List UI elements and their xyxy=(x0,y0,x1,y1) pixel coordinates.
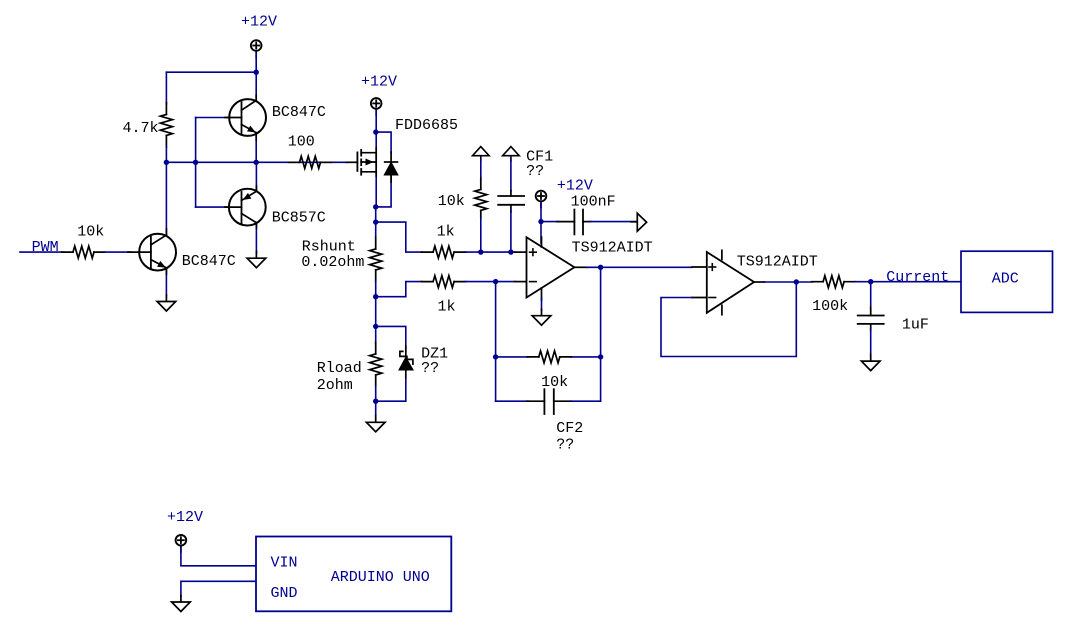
wire power to mosfet drain node xyxy=(375,111,377,132)
wire Q3 emitter down xyxy=(165,268,167,297)
svg-text:Current: Current xyxy=(886,269,949,286)
svg-text:ADC: ADC xyxy=(992,271,1019,288)
wire DZ1 bottom xyxy=(376,379,406,401)
wire Rload top xyxy=(375,326,377,343)
svg-text:PWM: PWM xyxy=(32,239,59,256)
wire 1k to opamp minus xyxy=(466,281,515,283)
capacitor CF2 xyxy=(527,389,572,414)
wire rail down to R 4.7k xyxy=(165,72,167,104)
wire 1k to opamp plus xyxy=(466,251,515,253)
wire tap to opamp minus xyxy=(376,282,422,297)
svg-text:TS912AIDT: TS912AIDT xyxy=(572,239,653,256)
wire opamp2 feedback loop xyxy=(661,282,796,357)
resistor R 1k (plus input) xyxy=(422,246,466,258)
wire feedback 10k right xyxy=(571,356,601,358)
wire 1uF bottom xyxy=(870,330,872,356)
svg-text:TS912AIDT: TS912AIDT xyxy=(737,253,818,270)
power +12V symbol P3 (opamp1) xyxy=(536,191,547,208)
resistor R 100 (gate) xyxy=(289,156,332,168)
resistor Rshunt xyxy=(370,237,382,281)
wire CF1 top xyxy=(510,160,512,192)
op-amp U2 TS912AIDT xyxy=(692,250,765,314)
svg-text:+12V: +12V xyxy=(361,74,397,91)
wire 4.7k to mid rail xyxy=(165,147,167,162)
resistor R 1k (minus input) xyxy=(422,276,466,288)
wire GND pin to ground xyxy=(181,581,256,596)
transistor M1 FDD6685 MOSFET xyxy=(347,148,377,176)
transistor Q3 BC847C (bottom) xyxy=(128,229,176,274)
flag arrow (CF1 top) xyxy=(503,147,520,161)
diode DZ1 zener xyxy=(400,346,413,378)
wire opamp2 output xyxy=(764,281,812,283)
wire opamp1 gnd xyxy=(541,298,543,311)
svg-text:BC857C: BC857C xyxy=(272,210,326,227)
wire mosfet vertical drain-source xyxy=(375,132,377,207)
wire feedback left vertical xyxy=(495,282,497,402)
wire top rail xyxy=(166,71,256,73)
ground under Q2 xyxy=(247,252,266,268)
wire Rload bottom to gnd node xyxy=(375,386,377,416)
diode D1 (body diode) xyxy=(385,152,398,182)
ground under Rload xyxy=(366,416,385,432)
svg-text:10k: 10k xyxy=(77,224,104,241)
svg-text:2ohm: 2ohm xyxy=(317,377,353,394)
junction dots (amp2 section) xyxy=(794,279,874,285)
resistor R 100k xyxy=(812,276,856,288)
wire 100k to ADC xyxy=(856,281,961,283)
wire Q3 collector to rail xyxy=(165,162,167,236)
wire Q2 base xyxy=(196,206,228,208)
resistor R 4.7k xyxy=(160,103,172,148)
power +12V symbol P1 xyxy=(251,40,262,57)
wire Q1 base xyxy=(196,117,228,119)
junction dots (amp1 section) xyxy=(478,219,603,360)
capacitor C 100nF xyxy=(557,210,590,235)
ground under 1uF xyxy=(861,355,880,371)
resistor R 10k (feedback) xyxy=(527,351,571,363)
svg-text:CF2: CF2 xyxy=(556,420,583,437)
wire R10k to Q3 base xyxy=(105,251,130,253)
box ARDUINO UNO xyxy=(256,537,451,612)
transistor Q1 BC847C (top) xyxy=(225,95,266,140)
wire opamp1 output xyxy=(587,266,692,268)
svg-text:VIN: VIN xyxy=(271,554,298,571)
wire top power stub xyxy=(255,54,257,73)
svg-text:??: ?? xyxy=(421,360,439,377)
wire Q1 collector xyxy=(255,72,257,100)
wire 100nF to flag xyxy=(590,221,637,223)
capacitor C 1uF xyxy=(858,308,884,332)
transistor Q2 BC857C (PNP) xyxy=(225,186,266,228)
svg-text:ARDUINO UNO: ARDUINO UNO xyxy=(331,569,430,586)
ground under Q3 xyxy=(157,295,176,311)
svg-text:4.7k: 4.7k xyxy=(123,120,159,137)
ground (arduino) xyxy=(172,596,191,612)
wire Q2 collector down xyxy=(255,223,257,254)
svg-text:FDD6685: FDD6685 xyxy=(395,117,458,134)
svg-text:??: ?? xyxy=(556,437,574,454)
power +12V symbol P2 (MOSFET) xyxy=(371,98,382,115)
wire body diode branch bottom xyxy=(376,175,391,207)
svg-text:BC847C: BC847C xyxy=(182,253,236,270)
op-amp U1 TS912AIDT xyxy=(515,237,588,300)
wire body diode branch top xyxy=(376,132,391,153)
svg-text:100k: 100k xyxy=(812,298,848,315)
wire Q2 emitter from rail xyxy=(255,162,257,192)
svg-text:0.02ohm: 0.02ohm xyxy=(301,254,364,271)
wire 1uF top xyxy=(870,282,872,309)
wire +12V to 100nF xyxy=(541,221,558,223)
svg-text:+12V: +12V xyxy=(557,178,593,195)
wire Q1 emitter to rail xyxy=(255,133,257,162)
flag arrow (vref out) xyxy=(631,213,647,231)
wire CF2 left xyxy=(496,400,528,402)
svg-text:10k: 10k xyxy=(438,193,465,210)
svg-text:+12V: +12V xyxy=(167,509,203,526)
svg-text:+12V: +12V xyxy=(241,14,277,31)
wire 10k vert bottom xyxy=(480,218,482,252)
wire mid rail xyxy=(166,161,348,163)
resistor Rload xyxy=(370,342,382,386)
wire feedback 10k left xyxy=(496,356,528,358)
wire CF1 bottom xyxy=(510,211,512,252)
svg-text:1uF: 1uF xyxy=(902,316,929,333)
wire PWM input xyxy=(20,251,64,253)
flag arrow (10k pullup top) xyxy=(473,147,490,161)
power +12V symbol P4 (arduino) xyxy=(176,535,187,552)
wire 10k vert top xyxy=(480,160,482,180)
wire CF2 right xyxy=(571,400,601,402)
resistor R 10k (vertical) xyxy=(475,178,487,218)
wire shunt bottom xyxy=(375,281,377,326)
wire tap to opamp plus xyxy=(376,222,422,252)
wire +12V to opamp1 vcc xyxy=(540,204,542,244)
junction dots (left section) xyxy=(164,70,259,166)
box ADC xyxy=(961,251,1053,312)
svg-text:1k: 1k xyxy=(438,298,456,315)
resistor R 10k (PWM) xyxy=(62,246,105,258)
svg-text:100: 100 xyxy=(288,134,315,151)
wire tap to DZ1 xyxy=(376,326,406,351)
svg-text:1k: 1k xyxy=(437,223,455,240)
wire base bus vertical xyxy=(195,118,197,208)
ground under opamp1 xyxy=(532,310,551,326)
svg-text:GND: GND xyxy=(271,585,298,602)
svg-text:Rload: Rload xyxy=(317,360,362,377)
wire shunt node vertical xyxy=(375,207,377,238)
wire +12V to VIN xyxy=(181,548,256,566)
svg-text:??: ?? xyxy=(526,163,544,180)
svg-text:BC847C: BC847C xyxy=(272,104,326,121)
junction dots (mosfet section) xyxy=(373,129,378,404)
capacitor CF1 xyxy=(498,191,524,213)
svg-text:100nF: 100nF xyxy=(571,194,616,211)
wire feedback right vertical xyxy=(600,267,602,401)
